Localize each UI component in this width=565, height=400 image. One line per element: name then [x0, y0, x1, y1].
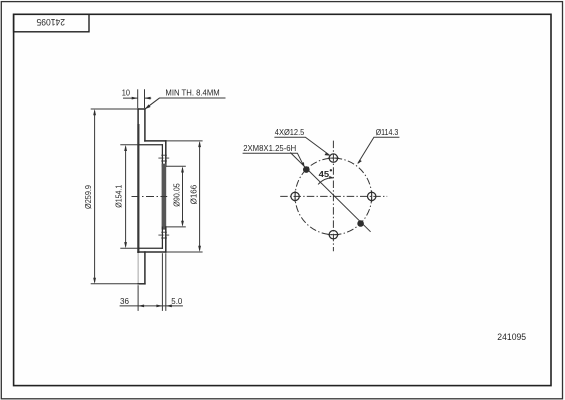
M8 tapped hole top (section) — [158, 155, 169, 161]
extension 10 dim left — [137, 89, 139, 108]
friction band left edge — [137, 109, 139, 252]
extension 10 dim right — [144, 89, 146, 108]
mounting face top — [165, 141, 167, 166]
title block box top-left — [14, 14, 89, 32]
M8 tapped hole bottom (section) — [158, 232, 169, 238]
axis centerline — [132, 196, 168, 198]
leader 2XM8X1.25-6H — [243, 144, 305, 168]
bolt hole bottom Ø12.5 — [328, 231, 339, 239]
svg-text:241095: 241095 — [497, 332, 526, 342]
bolt hole top Ø12.5 — [328, 154, 339, 162]
svg-text:241095: 241095 — [36, 17, 65, 27]
hat inner surface Ø154.1 top — [138, 144, 162, 146]
extension Ø259.9 bottom — [91, 283, 138, 285]
dimension Ø154.1 — [115, 145, 127, 248]
friction band right edge top — [144, 109, 146, 141]
leader Ø114.3 — [357, 128, 399, 164]
disc bottom edge — [138, 283, 145, 285]
svg-text:10: 10 — [122, 88, 131, 97]
hat section cut band — [162, 166, 167, 227]
extension Ø259.9 top — [91, 108, 138, 110]
extension Ø166 top — [166, 140, 203, 142]
extension Ø90.05 bottom — [166, 226, 186, 228]
bolt hole left Ø12.5 — [291, 191, 299, 202]
hat inner wall top — [161, 145, 163, 166]
extension 36 dim left — [137, 285, 139, 311]
threaded hole M8 upper-left — [303, 166, 310, 173]
dimension Ø90.05 — [172, 166, 184, 226]
vertical centerline — [332, 141, 334, 252]
threaded hole M8 lower-right — [357, 220, 364, 227]
hat outer surface Ø166 bottom shoulder — [138, 251, 166, 253]
extension Ø154.1 bottom — [120, 247, 138, 249]
dimension Ø259.9 — [84, 109, 96, 284]
svg-text:4XØ12.5: 4XØ12.5 — [275, 128, 305, 137]
disc top edge — [138, 108, 145, 110]
dimension 36 — [120, 297, 183, 307]
leader 4XØ12.5 — [274, 128, 330, 156]
45 degree diagonal centerline — [290, 153, 370, 232]
svg-text:45: 45 — [319, 170, 330, 179]
svg-text:Ø166: Ø166 — [190, 184, 199, 204]
hat outer surface Ø166 top — [145, 140, 166, 142]
extension 5.0 dim right — [165, 253, 167, 311]
bolt circle Ø114.3 — [295, 158, 372, 235]
dimension 5.0 — [166, 297, 183, 307]
hat inner wall bottom — [161, 227, 163, 248]
bolt hole right Ø12.5 — [368, 191, 376, 202]
extension 5.0 dim left — [161, 253, 163, 311]
svg-text:36: 36 — [120, 297, 130, 306]
45 degree arc — [318, 169, 334, 184]
extension lines — [91, 89, 203, 311]
svg-text:Ø114.3: Ø114.3 — [376, 128, 399, 137]
svg-text:5.0: 5.0 — [171, 297, 183, 306]
svg-text:Ø259.9: Ø259.9 — [84, 185, 93, 209]
extension Ø166 bottom — [166, 251, 203, 253]
svg-text:Ø154.1: Ø154.1 — [115, 184, 124, 207]
horizontal centerline — [280, 195, 387, 197]
friction band right edge bottom — [144, 252, 146, 284]
dimension 10 — [122, 88, 151, 99]
dimension Ø166 — [190, 141, 202, 252]
svg-text:2XM8X1.25-6H: 2XM8X1.25-6H — [243, 144, 296, 153]
svg-text:MIN TH. 8.4MM: MIN TH. 8.4MM — [165, 88, 220, 97]
svg-text:Ø90.05: Ø90.05 — [172, 183, 181, 207]
hat inner surface Ø154.1 bottom — [138, 247, 162, 249]
leader MIN TH. 8.4MM — [145, 88, 226, 109]
extension Ø90.05 top — [166, 165, 186, 167]
extension Ø154.1 top — [120, 144, 138, 146]
friction band left edge thick wear band — [137, 125, 139, 252]
mounting face bottom — [165, 227, 167, 252]
